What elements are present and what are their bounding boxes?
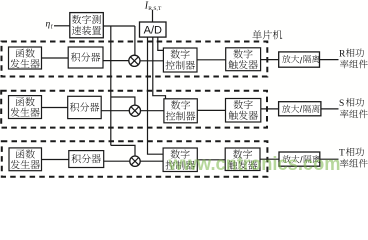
- svg-text:R: R: [339, 50, 346, 60]
- svg-text:η: η: [46, 20, 51, 30]
- svg-text:S: S: [339, 99, 344, 109]
- svg-text:f: f: [51, 23, 53, 30]
- svg-text:R,S,T: R,S,T: [148, 6, 162, 12]
- svg-text:www.cntronics.com: www.cntronics.com: [168, 154, 341, 175]
- svg-text:A/D: A/D: [144, 25, 162, 37]
